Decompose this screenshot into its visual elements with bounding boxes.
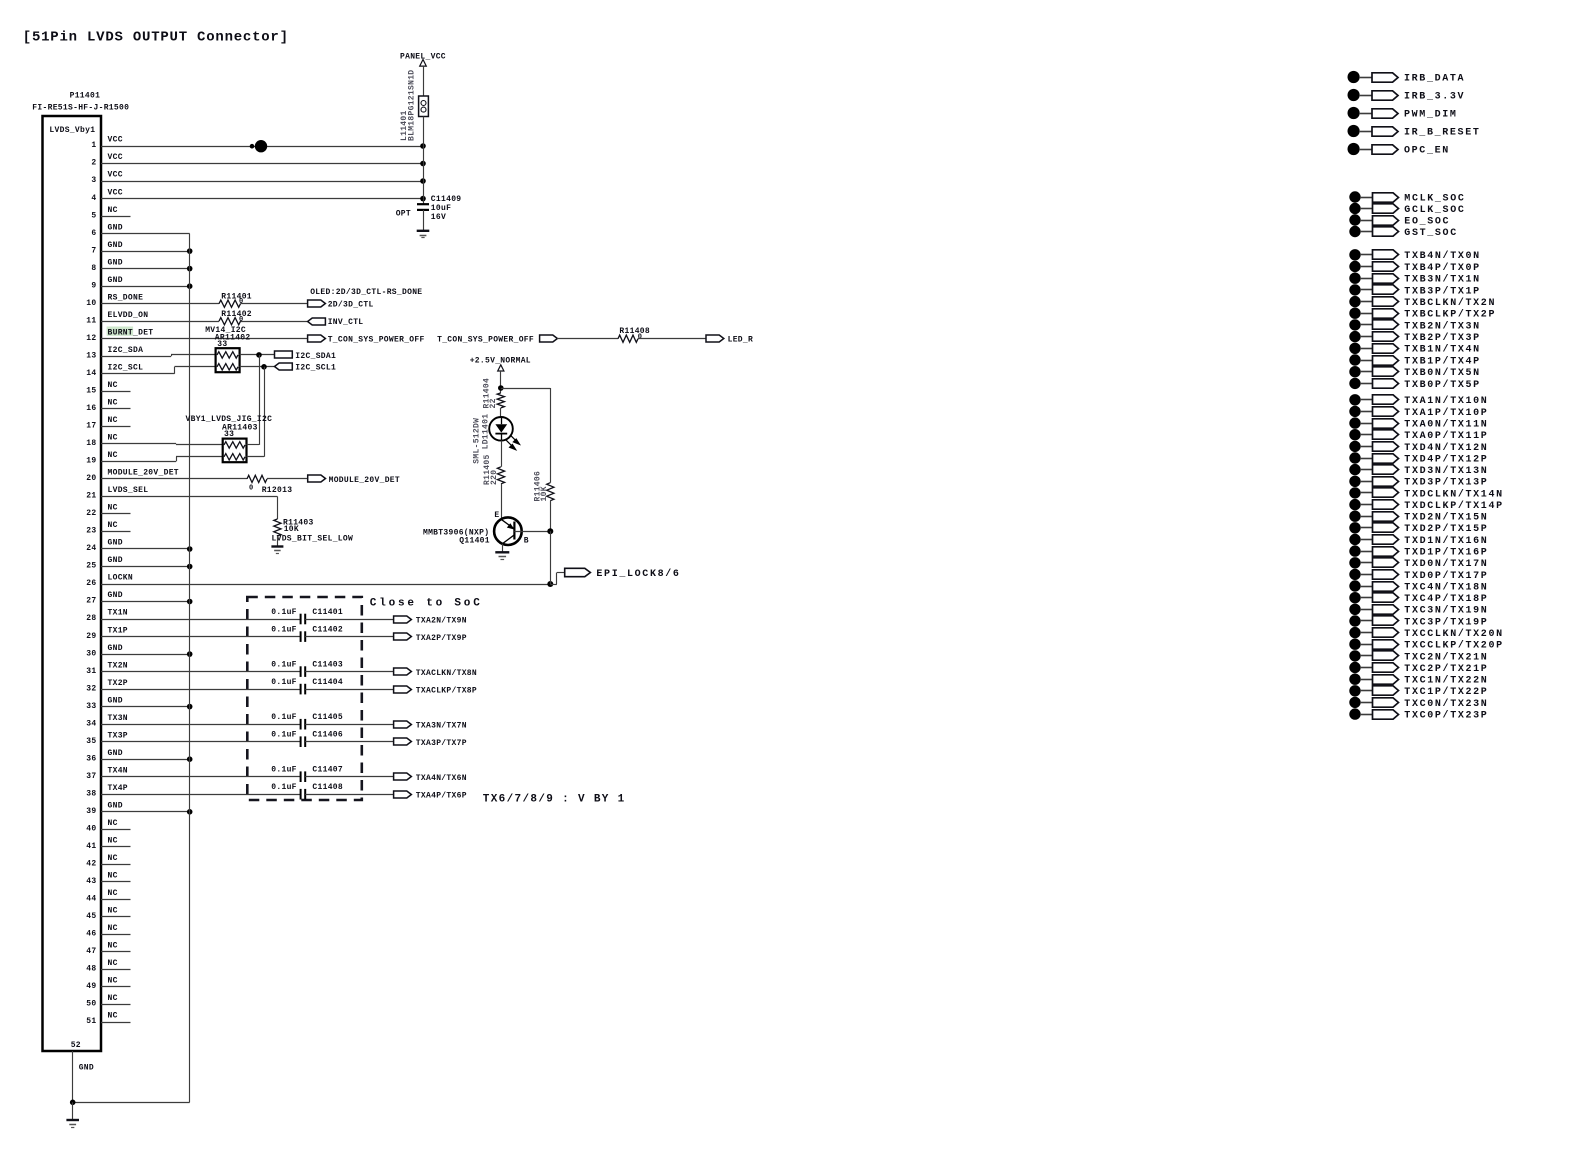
svg-text:NC: NC [108,1012,118,1021]
node/port TXC2N/TX21N [1349,650,1360,661]
port TXA4N/TX6N [394,773,412,780]
capacitor C11407 0.1uF [301,771,306,782]
svg-text:TXC2P/TX21P: TXC2P/TX21P [1404,663,1488,675]
svg-text:TXB0N/TX5N: TXB0N/TX5N [1404,367,1481,379]
svg-text:VCC: VCC [108,188,123,197]
svg-text:17: 17 [86,422,96,431]
node/port TXD1N/TX16N [1349,534,1360,545]
svg-text:TXD4N/TX12N: TXD4N/TX12N [1404,442,1488,454]
resistor R11405 220 [497,467,504,484]
node/port TXD2P/TX15P [1349,522,1360,533]
svg-text:C11402: C11402 [312,625,343,634]
svg-text:16V: 16V [431,213,446,222]
wire C11404 out [305,689,393,691]
svg-text:TXBCLKN/TX2N: TXBCLKN/TX2N [1404,297,1496,309]
node/port TXD2N/TX15N [1349,511,1360,522]
svg-text:NC: NC [108,994,118,1003]
svg-text:TXC4N/TX18N: TXC4N/TX18N [1404,581,1488,593]
wire SCL to AR11403 [264,367,266,457]
node/port TXB3N/TX1N [1349,273,1360,284]
svg-text:TXBCLKP/TX2P: TXBCLKP/TX2P [1404,309,1496,321]
resistor R11408 0 [618,335,638,342]
svg-text:GND: GND [108,591,123,600]
port TXA4P/TX6P [394,791,412,798]
svg-text:0.1uF: 0.1uF [271,625,297,634]
wire MODULE_20V_DET [101,478,247,480]
resistor R12013 0 [247,475,267,482]
svg-text:NC: NC [108,854,118,863]
svg-text:TXD3N/TX13N: TXD3N/TX13N [1404,465,1488,477]
node/port TXDCLKP/TX14P [1349,499,1360,510]
svg-text:12: 12 [86,334,96,343]
node/port TXC1N/TX22N [1349,674,1360,685]
wire SDA out [240,354,275,356]
svg-text:36: 36 [86,754,96,763]
wire base [514,531,550,533]
node/port TXB0N/TX5N [1349,366,1360,377]
svg-text:48: 48 [86,965,96,974]
wire LVDS_SEL [101,496,277,498]
wire TX2N [101,671,301,673]
GND bus vertical [189,234,191,1103]
svg-text:TXC1P/TX22P: TXC1P/TX22P [1404,686,1488,698]
svg-text:29: 29 [86,632,96,641]
svg-text:16: 16 [86,404,96,413]
svg-text:4: 4 [91,194,96,203]
svg-text:6: 6 [91,229,96,238]
svg-text:25: 25 [86,562,96,571]
svg-text:38: 38 [86,789,96,798]
svg-text:1: 1 [91,141,96,150]
svg-text:BLM18PG121SN1D: BLM18PG121SN1D [408,70,417,141]
node/port TXC4P/TX18P [1349,592,1360,603]
capacitor C11403 0.1uF [301,666,306,677]
node/port TXD0N/TX17N [1349,557,1360,568]
svg-text:14: 14 [86,369,96,378]
wire TX2P [101,689,301,691]
svg-text:0.1uF: 0.1uF [271,731,297,740]
svg-text:TXD0N/TX17N: TXD0N/TX17N [1404,558,1488,570]
svg-text:NC: NC [108,504,118,513]
svg-text:TXB1P/TX4P: TXB1P/TX4P [1404,355,1481,367]
svg-text:39: 39 [86,807,96,816]
svg-text:TXA0P/TX11P: TXA0P/TX11P [1404,430,1488,442]
wire LOCKN [101,584,550,586]
wire R11403 to ground [277,536,279,547]
capacitor C11409 10uF 16V (OPT) [423,198,425,204]
svg-text:TXACLKP/TX8P: TXACLKP/TX8P [416,687,477,696]
svg-text:TX2P: TX2P [108,679,128,688]
resistor R11402 0 [219,318,241,325]
node/port PWM_DIM [1348,107,1360,119]
svg-text:B: B [524,537,529,546]
svg-text:TXD3P/TX13P: TXD3P/TX13P [1404,477,1488,489]
node/port MCLK_SOC [1349,191,1360,202]
svg-text:Close to SoC: Close to SoC [370,597,483,609]
svg-text:TX2N: TX2N [108,661,128,670]
svg-text:0: 0 [249,484,254,492]
svg-text:NC: NC [108,977,118,986]
svg-text:46: 46 [86,930,96,939]
svg-text:FI-RE51S-HF-J-R1500: FI-RE51S-HF-J-R1500 [32,103,129,112]
svg-text:TXB2P/TX3P: TXB2P/TX3P [1404,332,1481,344]
wire C11408 out [305,794,393,796]
wire SDA to AR11403 [259,355,261,445]
port TXACLKN/TX8N [394,668,412,675]
svg-text:GND: GND [108,241,123,250]
svg-text:TXA3P/TX7P: TXA3P/TX7P [416,739,467,748]
svg-text:TX1N: TX1N [108,609,128,618]
svg-text:5: 5 [91,211,96,220]
LED emission arrows [506,435,519,450]
svg-text:10K: 10K [284,525,299,534]
wire inductor to VCC pins [423,117,425,199]
svg-text:C11408: C11408 [312,783,343,792]
wire R11406 to base node [550,501,552,532]
port I2C_SCL1 [275,363,293,370]
svg-text:NC: NC [108,381,118,390]
svg-text:C11404: C11404 [312,678,343,687]
svg-text:TXA2P/TX9P: TXA2P/TX9P [416,634,467,643]
node/port IR_B_RESET [1348,125,1360,137]
svg-text:C11403: C11403 [312,660,343,669]
svg-text:TXB3N/TX1N: TXB3N/TX1N [1404,274,1481,286]
svg-text:11: 11 [86,316,96,325]
svg-text:[51Pin LVDS OUTPUT Connector]: [51Pin LVDS OUTPUT Connector] [23,30,289,46]
node/port TXC2P/TX21P [1349,662,1360,673]
svg-text:TXC4P/TX18P: TXC4P/TX18P [1404,593,1488,605]
svg-text:9: 9 [91,281,96,290]
node/port TXA0N/TX11N [1349,417,1360,428]
svg-text:13: 13 [86,351,96,360]
svg-text:52: 52 [71,1041,81,1050]
node/port IRB_DATA [1348,71,1360,83]
svg-text:TXB2N/TX3N: TXB2N/TX3N [1404,320,1481,332]
svg-text:8: 8 [91,264,96,273]
svg-text:C11401: C11401 [312,608,343,617]
svg-text:35: 35 [86,737,96,746]
wire array out bottom [247,456,265,458]
resistor R11404 22 [497,393,504,408]
node/port TXB2N/TX3N [1349,319,1360,330]
wire +2.5V to R11406 branch [501,388,551,390]
svg-text:TXC3P/TX19P: TXC3P/TX19P [1404,616,1488,628]
svg-text:I2C_SCL: I2C_SCL [108,364,144,373]
svg-text:0.1uF: 0.1uF [271,766,297,775]
svg-text:TXD2P/TX15P: TXD2P/TX15P [1404,523,1488,535]
svg-text:20: 20 [86,474,96,483]
wire VCC pins 1-4 to PANEL_VCC rail [101,146,423,148]
resistor R11401 0 [219,300,241,307]
svg-text:NC: NC [108,942,118,951]
svg-text:TXB4N/TX0N: TXB4N/TX0N [1404,250,1481,262]
port I2C_SDA1 [275,351,293,358]
svg-text:IRB_3.3V: IRB_3.3V [1404,91,1465,102]
svg-text:TXACLKN/TX8N: TXACLKN/TX8N [416,669,477,678]
node/port TXCCLKN/TX20N [1349,627,1360,638]
svg-text:33: 33 [86,702,96,711]
svg-text:NC: NC [108,434,118,443]
svg-text:43: 43 [86,877,96,886]
svg-text:LVDS_BIT_SEL_LOW: LVDS_BIT_SEL_LOW [272,535,354,544]
svg-text:7: 7 [91,246,96,255]
node/port TXBCLKP/TX2P [1349,308,1360,319]
port 2D/3D_CTL [308,300,326,307]
node/port TXBCLKN/TX2N [1349,296,1360,307]
pin52 GND wire [72,1051,74,1102]
svg-text:GCLK_SOC: GCLK_SOC [1404,205,1465,216]
wire I2C_SCL [101,373,175,375]
wire ELVDD_ON [101,321,219,323]
svg-text:19: 19 [86,457,96,466]
svg-text:GND: GND [108,276,123,285]
svg-text:GST_SOC: GST_SOC [1404,228,1458,239]
node/port TXC0P/TX23P [1349,708,1360,719]
node/port TXD1P/TX16P [1349,545,1360,556]
svg-text:TXD1P/TX16P: TXD1P/TX16P [1404,547,1488,559]
svg-text:EO_SOC: EO_SOC [1404,216,1450,227]
svg-text:GND: GND [108,802,123,811]
wire pin19 to array [101,461,176,463]
svg-text:34: 34 [86,719,96,728]
svg-text:TXA4N/TX6N: TXA4N/TX6N [416,774,467,783]
node/port IRB_3.3V [1348,89,1360,101]
svg-text:C11406: C11406 [312,731,343,740]
svg-text:31: 31 [86,667,96,676]
node/port TXB4N/TX0N [1349,249,1360,260]
svg-text:BURNT_DET: BURNT_DET [108,328,154,337]
svg-text:NC: NC [108,907,118,916]
node on pin1 VCC wire (net blob) [250,144,255,149]
svg-text:IRB_DATA: IRB_DATA [1404,73,1465,84]
svg-text:C11405: C11405 [312,713,343,722]
svg-text:NC: NC [108,924,118,933]
LED LD11401 SML-512DW [489,417,513,441]
svg-text:45: 45 [86,912,96,921]
svg-text:TXD2N/TX15N: TXD2N/TX15N [1404,512,1488,524]
wire R11405 to Q11401 emitter [501,484,503,519]
svg-text:R12013: R12013 [262,486,293,495]
ground (C11409) [417,230,430,232]
svg-text:GND: GND [108,258,123,267]
GND bus wires [101,233,190,235]
svg-text:LVDS_SEL: LVDS_SEL [108,486,149,495]
svg-text:22: 22 [86,509,96,518]
port LED_R [706,335,724,342]
svg-text:TXC0P/TX23P: TXC0P/TX23P [1404,710,1488,722]
node/port TXD0P/TX17P [1349,569,1360,580]
svg-text:VCC: VCC [108,171,123,180]
svg-text:TX1P: TX1P [108,626,128,635]
resistor R11406 10K [547,483,554,501]
svg-text:LD11401: LD11401 [482,414,491,450]
svg-text:TXA1P/TX10P: TXA1P/TX10P [1404,407,1488,419]
node/port TXA0P/TX11P [1349,429,1360,440]
svg-text:OPC_EN: OPC_EN [1404,145,1450,156]
wire C11401 out [305,619,393,621]
wire TX4P [101,794,301,796]
svg-text:ELVDD_ON: ELVDD_ON [108,311,149,320]
svg-text:T_CON_SYS_POWER_OFF: T_CON_SYS_POWER_OFF [437,336,534,345]
svg-text:23: 23 [86,527,96,536]
svg-text:TXB3P/TX1P: TXB3P/TX1P [1404,285,1481,297]
wire LOCKN to EPI flag [550,584,557,586]
wire LED to R11405 [501,441,503,467]
svg-text:R11408: R11408 [619,327,650,336]
svg-text:Q11401: Q11401 [459,536,490,545]
resistor R11403 10K [274,519,281,536]
node/port GCLK_SOC [1349,203,1360,214]
node/port EO_SOC [1349,214,1360,225]
wire SCL out [240,366,275,368]
wire pin18 to array [101,443,176,445]
svg-text:2D/3D_CTL: 2D/3D_CTL [328,301,374,310]
wire array out top [247,444,260,446]
svg-text:0: 0 [239,316,244,324]
ground (Q11401) [495,551,509,553]
svg-text:NC: NC [108,416,118,425]
NC pin stubs [101,216,131,218]
svg-text:GND: GND [108,556,123,565]
node/port TXC3N/TX19N [1349,604,1360,615]
svg-text:TXC2N/TX21N: TXC2N/TX21N [1404,651,1488,663]
svg-text:TXA0N/TX11N: TXA0N/TX11N [1404,419,1488,431]
node/port TXB2P/TX3P [1349,331,1360,342]
svg-text:NC: NC [108,837,118,846]
svg-text:SML-512DW: SML-512DW [473,418,482,464]
svg-text:42: 42 [86,860,96,869]
svg-text:NC: NC [108,399,118,408]
node/port TXD3P/TX13P [1349,476,1360,487]
svg-text:32: 32 [86,684,96,693]
svg-text:GND: GND [108,696,123,705]
ground (bottom) [72,1102,74,1120]
node/port TXB1P/TX4P [1349,354,1360,365]
svg-text:TXCCLKP/TX20P: TXCCLKP/TX20P [1404,640,1503,652]
node/port GST_SOC [1349,226,1360,237]
svg-text:220: 220 [490,470,499,485]
port T_CON_SYS_POWER_OFF [308,335,326,342]
node/port TXC0N/TX23N [1349,697,1360,708]
svg-text:TXB4P/TX0P: TXB4P/TX0P [1404,262,1481,274]
svg-text:28: 28 [86,614,96,623]
svg-text:0: 0 [638,333,643,341]
svg-text:LED_R: LED_R [728,336,754,345]
svg-text:R11402: R11402 [221,310,252,319]
svg-text:NC: NC [108,206,118,215]
capacitor C11406 0.1uF [301,736,306,747]
svg-text:21: 21 [86,492,96,501]
svg-text:MODULE_20V_DET: MODULE_20V_DET [108,469,179,478]
svg-text:TXDCLKP/TX14P: TXDCLKP/TX14P [1404,500,1503,512]
svg-text:TXB0P/TX5P: TXB0P/TX5P [1404,379,1481,391]
svg-text:NC: NC [108,889,118,898]
svg-text:47: 47 [86,947,96,956]
svg-text:0.1uF: 0.1uF [271,660,297,669]
svg-text:+2.5V_NORMAL: +2.5V_NORMAL [470,357,531,366]
svg-text:NC: NC [108,819,118,828]
wire base node down to LOCKN [550,531,552,584]
svg-text:P11401: P11401 [70,92,101,101]
svg-text:OPT: OPT [396,209,411,218]
svg-text:10: 10 [86,299,96,308]
node/port TXCCLKP/TX20P [1349,639,1360,650]
port TXACLKP/TX8P [394,686,412,693]
wire I2C_SDA [101,356,171,358]
svg-text:GND: GND [108,749,123,758]
svg-text:18: 18 [86,439,96,448]
svg-text:26: 26 [86,579,96,588]
wire C11405 out [305,724,393,726]
svg-text:NC: NC [108,872,118,881]
ground (R11403) [271,545,283,547]
node/port TXC1P/TX22P [1349,685,1360,696]
transistor Q11401 MMBT3906(NXP) [494,517,522,545]
svg-text:TXD0P/TX17P: TXD0P/TX17P [1404,570,1488,582]
node/port TXB0P/TX5P [1349,378,1360,389]
port MODULE_20V_DET [308,475,326,482]
port TXA3P/TX7P [394,738,412,745]
inductor L11401 BLM18PG121SN1D [419,96,429,117]
port TXA3N/TX7N [394,721,412,728]
svg-text:TX6/7/8/9 : V BY 1: TX6/7/8/9 : V BY 1 [483,794,626,806]
svg-text:LOCKN: LOCKN [108,574,134,583]
port TXA2N/TX9N [394,616,412,623]
svg-text:GND: GND [108,223,123,232]
svg-text:TXA1N/TX10N: TXA1N/TX10N [1404,395,1488,407]
svg-text:GND: GND [108,644,123,653]
svg-text:GND: GND [79,1064,94,1073]
svg-text:C11407: C11407 [312,766,343,775]
wire TX1N [101,619,301,621]
svg-text:40: 40 [86,825,96,834]
svg-text:0.1uF: 0.1uF [271,678,297,687]
wire C11406 out [305,741,393,743]
svg-text:50: 50 [86,1000,96,1009]
svg-text:TXB1N/TX4N: TXB1N/TX4N [1404,344,1481,356]
svg-text:37: 37 [86,772,96,781]
svg-text:T_CON_SYS_POWER_OFF: T_CON_SYS_POWER_OFF [328,336,425,345]
svg-text:TXCCLKN/TX20N: TXCCLKN/TX20N [1404,628,1503,640]
svg-text:49: 49 [86,982,96,991]
svg-text:TXA2N/TX9N: TXA2N/TX9N [416,616,467,625]
svg-text:IR_B_RESET: IR_B_RESET [1404,127,1481,138]
node/port TXD3N/TX13N [1349,464,1360,475]
svg-text:VCC: VCC [108,136,123,145]
svg-text:TXD4P/TX12P: TXD4P/TX12P [1404,453,1488,465]
wire TX1P [101,636,301,638]
svg-text:RS_DONE: RS_DONE [108,293,144,302]
svg-text:15: 15 [86,387,96,396]
node/port TXD4N/TX12N [1349,441,1360,452]
svg-text:TXC3N/TX19N: TXC3N/TX19N [1404,605,1488,617]
svg-text:24: 24 [86,544,96,553]
svg-text:0.1uF: 0.1uF [271,783,297,792]
dashed box Close to SoC [247,597,361,800]
GND bus bottom horizontal [73,1102,190,1104]
capacitor C11402 0.1uF [301,631,306,642]
node/port TXC4N/TX18N [1349,580,1360,591]
svg-text:30: 30 [86,649,96,658]
svg-text:E: E [494,511,499,520]
svg-text:OLED:2D/3D_CTL-RS_DONE: OLED:2D/3D_CTL-RS_DONE [310,288,422,297]
svg-text:TX3N: TX3N [108,714,128,723]
connector P11401 FI-RE51S-HF-J-R1500 [43,116,102,1051]
node/port TXA1P/TX10P [1349,406,1360,417]
wire RS_DONE [101,303,219,305]
svg-text:TXDCLKN/TX14N: TXDCLKN/TX14N [1404,488,1503,500]
svg-text:27: 27 [86,597,96,606]
